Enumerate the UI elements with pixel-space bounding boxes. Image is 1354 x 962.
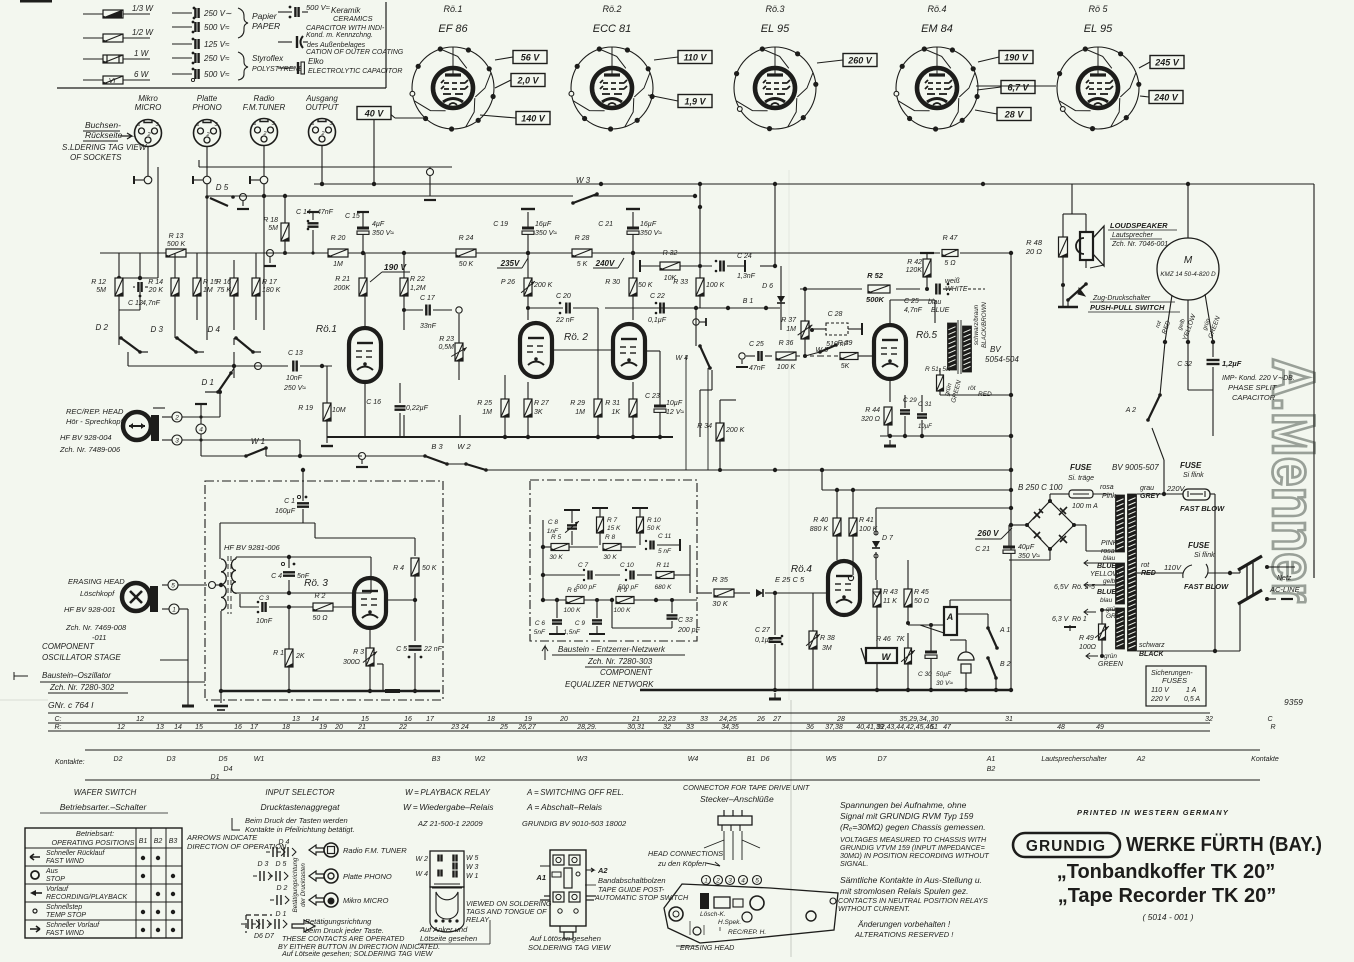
svg-text:R:: R: xyxy=(55,724,62,731)
svg-text:W2: W2 xyxy=(475,756,486,763)
diode D7 xyxy=(872,508,894,580)
capacitor C17 33nF xyxy=(402,295,462,330)
svg-text:R 49: R 49 xyxy=(1079,635,1094,642)
svg-text:Radio: Radio xyxy=(254,94,275,103)
label 9359 xyxy=(1284,697,1303,707)
label 235V xyxy=(497,258,528,268)
svg-text:15: 15 xyxy=(361,716,369,723)
resistor R37 1M xyxy=(781,296,812,358)
svg-text:Drucktastenaggregat: Drucktastenaggregat xyxy=(261,802,341,812)
resistor R16 75K xyxy=(216,260,238,330)
svg-text:D6 D7: D6 D7 xyxy=(254,933,275,940)
svg-text:22: 22 xyxy=(398,724,407,731)
svg-text:110V: 110V xyxy=(1164,563,1182,572)
svg-text:10µF: 10µF xyxy=(918,424,932,430)
label gruen GREEN motor xyxy=(1202,315,1222,339)
svg-text:C 27: C 27 xyxy=(755,627,771,634)
tube Ro4 EM84 xyxy=(791,561,860,615)
label rosa pink xyxy=(1100,484,1116,500)
svg-text:1K: 1K xyxy=(611,409,620,416)
svg-text:Rö. 2: Rö. 2 xyxy=(564,332,588,343)
wire Ro4 leads xyxy=(975,57,1001,114)
voltage box 6,7V xyxy=(1001,81,1035,94)
svg-text:100 m A: 100 m A xyxy=(1072,503,1098,510)
svg-text:2,0 V: 2,0 V xyxy=(516,76,539,86)
svg-text:schwarz: schwarz xyxy=(1139,642,1165,649)
saemtliche text xyxy=(838,875,988,913)
svg-text:CERAMICS: CERAMICS xyxy=(333,14,373,23)
svg-text:Schneller Rücklauf: Schneller Rücklauf xyxy=(46,850,105,857)
resistor R39 5K xyxy=(816,340,872,370)
voltage box 140V xyxy=(516,112,550,125)
voltage box 1,9V xyxy=(678,95,712,108)
voltage box 110V xyxy=(678,51,712,64)
capacitor C26 47nF xyxy=(904,283,952,314)
relay W diagram xyxy=(416,851,479,932)
svg-text:50 Ω: 50 Ω xyxy=(914,598,930,605)
svg-text:240V: 240V xyxy=(595,259,615,268)
svg-text:R 34: R 34 xyxy=(697,423,712,430)
svg-text:110 V: 110 V xyxy=(1151,687,1170,694)
svg-text:15 K: 15 K xyxy=(607,525,621,532)
label 65V xyxy=(1054,560,1115,591)
svg-text:680 K: 680 K xyxy=(655,584,673,591)
svg-text:ERASING HEAD: ERASING HEAD xyxy=(68,577,125,586)
ac plug xyxy=(1238,556,1301,604)
svg-text:Kontakte in Pfeilrichtung betä: Kontakte in Pfeilrichtung betätigt. xyxy=(245,825,355,834)
svg-text:5 K: 5 K xyxy=(577,261,588,268)
svg-text:11 K: 11 K xyxy=(883,598,897,605)
svg-text:34,35: 34,35 xyxy=(721,724,739,731)
wire ro4 grid xyxy=(828,592,830,594)
contact row C xyxy=(55,716,1274,723)
wire ro2 out xyxy=(645,351,660,380)
svg-text:5M: 5M xyxy=(268,225,278,232)
label B250C100 xyxy=(1018,483,1063,492)
svg-text:C 3: C 3 xyxy=(259,595,270,602)
svg-text:245 V: 245 V xyxy=(1154,58,1180,68)
capacitor C7 500pF xyxy=(541,562,620,591)
erase gnd xyxy=(160,640,194,706)
svg-text:FUSE: FUSE xyxy=(1070,463,1092,472)
wire Ro1 leads xyxy=(388,57,516,118)
svg-text:880 K: 880 K xyxy=(810,526,829,533)
svg-text:C 17: C 17 xyxy=(420,295,436,302)
svg-text:2: 2 xyxy=(146,132,150,138)
svg-text:4: 4 xyxy=(199,427,203,434)
svg-text:CONNECTOR FOR TAPE DRIVE UN: CONNECTOR FOR TAPE DRIVE UNIT xyxy=(683,783,810,792)
svg-text:48: 48 xyxy=(1057,724,1065,731)
connector wires xyxy=(704,831,760,860)
svg-text:D5: D5 xyxy=(219,756,228,763)
svg-text:„Tape Recorder TK 20”: „Tape Recorder TK 20” xyxy=(1058,885,1277,907)
transformer secondary pink xyxy=(1101,495,1125,555)
svg-text:33: 33 xyxy=(686,724,694,731)
svg-text:37,38: 37,38 xyxy=(825,724,843,731)
svg-text:B2: B2 xyxy=(987,766,996,773)
contact D4 xyxy=(266,839,296,857)
wire top bus A xyxy=(314,182,1072,186)
resistor R19 10M xyxy=(298,366,346,446)
svg-text:OF SOCKETS: OF SOCKETS xyxy=(70,153,122,162)
legend cap ceramic xyxy=(278,3,373,23)
svg-text:Vorlauf: Vorlauf xyxy=(46,886,69,893)
svg-text:R 51, 5K: R 51, 5K xyxy=(925,366,951,373)
svg-text:der Drucktasten: der Drucktasten xyxy=(300,863,307,907)
scan crease horizontal xyxy=(0,699,48,701)
wire x1011 vertical xyxy=(1009,253,1013,690)
svg-text:D 7: D 7 xyxy=(882,535,894,542)
svg-text:19: 19 xyxy=(524,716,532,723)
svg-text:2: 2 xyxy=(174,415,179,422)
voltage box 260V xyxy=(843,54,877,67)
svg-text:EL 95: EL 95 xyxy=(761,23,790,35)
svg-text:Platte PHONO: Platte PHONO xyxy=(343,872,392,881)
rec head pins xyxy=(162,412,300,445)
svg-text:500 pF: 500 pF xyxy=(576,584,597,591)
svg-text:30,31: 30,31 xyxy=(627,724,645,731)
svg-text:1,5nF: 1,5nF xyxy=(563,629,581,636)
resistor R20 1M xyxy=(328,235,348,268)
socket Platte xyxy=(192,94,221,147)
svg-text:PHASE SPLIT: PHASE SPLIT xyxy=(1228,383,1278,392)
resistor R48 20ohm xyxy=(1025,214,1072,307)
osc transformer xyxy=(219,556,236,693)
scan crease vertical xyxy=(789,170,791,957)
svg-text:KMZ 14 50-4-820 D: KMZ 14 50-4-820 D xyxy=(1160,271,1216,278)
label 240V xyxy=(593,258,624,268)
svg-text:7K: 7K xyxy=(896,636,905,643)
svg-text:W 1: W 1 xyxy=(251,437,265,446)
playback relay title xyxy=(403,788,494,828)
erase head pins xyxy=(162,580,221,640)
svg-text:Zch. Nr. 7280-303: Zch. Nr. 7280-303 xyxy=(587,657,653,666)
svg-text:50 K: 50 K xyxy=(638,282,653,289)
svg-text:1 W: 1 W xyxy=(134,49,150,58)
svg-text:1: 1 xyxy=(253,121,256,127)
svg-text:A: A xyxy=(946,612,954,622)
svg-text:OUTPUT: OUTPUT xyxy=(306,103,340,112)
resistor R12 5M xyxy=(91,278,123,296)
switch W1 xyxy=(201,437,302,458)
resistor R43 11K xyxy=(873,580,898,648)
switch W2 xyxy=(457,442,487,472)
capacitor C8 1nF xyxy=(547,510,580,545)
svg-text:C 31: C 31 xyxy=(918,401,932,408)
tube Ro2b xyxy=(564,324,645,378)
resistor R47 5ohm xyxy=(942,235,958,267)
voltage box 190V xyxy=(999,51,1033,64)
resistor R8 30K xyxy=(603,534,636,561)
svg-text:GRUNDIG: GRUNDIG xyxy=(1026,838,1106,855)
svg-text:Platte: Platte xyxy=(197,94,218,103)
svg-text:FAST BLOW: FAST BLOW xyxy=(1184,582,1229,591)
svg-text:C 5: C 5 xyxy=(396,646,407,653)
legend cap elko xyxy=(278,57,402,75)
svg-text:51: 51 xyxy=(930,724,938,731)
wire bridge connections xyxy=(1009,494,1116,560)
svg-text:16: 16 xyxy=(404,716,412,723)
svg-text:weiß: weiß xyxy=(945,278,960,285)
svg-text:18: 18 xyxy=(282,724,290,731)
svg-text:W 1: W 1 xyxy=(466,873,479,880)
svg-text:FUSE: FUSE xyxy=(1188,541,1210,550)
resistor R1 2K xyxy=(273,607,305,693)
motor M xyxy=(1157,238,1219,300)
wire bus A right xyxy=(1072,182,1314,186)
svg-text:R 47: R 47 xyxy=(943,235,959,242)
legend resistor 1W xyxy=(83,49,150,63)
svg-text:50 K: 50 K xyxy=(647,525,661,532)
svg-text:23 24: 23 24 xyxy=(450,724,469,731)
capacitor C5 22nF xyxy=(396,646,443,693)
svg-text:Bandabschaltbolzen: Bandabschaltbolzen xyxy=(598,876,666,885)
wire eq out xyxy=(697,592,712,594)
svg-text:B 250 C 100: B 250 C 100 xyxy=(1018,483,1063,492)
svg-text:HEAD CONNECTIONS: HEAD CONNECTIONS xyxy=(648,849,723,858)
resistor R25 1M xyxy=(477,375,509,437)
switch W3 xyxy=(571,176,599,205)
svg-text:rosa: rosa xyxy=(1100,484,1114,491)
svg-text:75 K: 75 K xyxy=(217,287,232,294)
resistor R6 100K xyxy=(541,587,612,614)
switch D1 xyxy=(202,368,234,394)
socket note xyxy=(62,120,148,162)
svg-text:R 41: R 41 xyxy=(859,517,874,524)
svg-text:D 5: D 5 xyxy=(216,183,229,192)
svg-text:24,25: 24,25 xyxy=(718,716,737,723)
wire M feed xyxy=(1187,184,1189,238)
svg-text:W3: W3 xyxy=(577,756,588,763)
tube Ro1 xyxy=(316,324,381,382)
label weiss WHITE xyxy=(945,278,985,293)
aenderungen text xyxy=(854,920,954,939)
svg-text:14: 14 xyxy=(311,716,319,723)
socket Mikro xyxy=(135,94,162,147)
contact D1 xyxy=(241,911,315,940)
capacitor C9 1.5nF xyxy=(563,598,605,636)
svg-text:125 V≈: 125 V≈ xyxy=(204,40,230,49)
svg-text:R 45: R 45 xyxy=(914,589,929,596)
wire y470 long xyxy=(486,468,1013,472)
svg-text:GRUNDIG BV 9010-503 18002: GRUNDIG BV 9010-503 18002 xyxy=(522,819,627,828)
capacitor C3 10nF xyxy=(256,595,273,625)
svg-text:49: 49 xyxy=(1096,724,1104,731)
svg-text:0,22µF: 0,22µF xyxy=(406,405,429,412)
abschalt relay title xyxy=(522,788,627,828)
svg-text:HF BV 9281-006: HF BV 9281-006 xyxy=(224,543,281,552)
svg-text:Rö.4: Rö.4 xyxy=(791,564,813,575)
svg-text:5nF: 5nF xyxy=(534,629,546,636)
input selector title xyxy=(261,788,341,812)
connector icon xyxy=(718,810,752,831)
svg-text:(Rₑ=30MΩ) gegen Chassis gemess: (Rₑ=30MΩ) gegen Chassis gemessen. xyxy=(840,822,986,832)
svg-text:RECORDING/PLAYBACK: RECORDING/PLAYBACK xyxy=(46,894,127,901)
spannungen text xyxy=(840,800,986,832)
svg-text:mit stromlosen Relais Spule: mit stromlosen Relais Spulen gez. xyxy=(840,886,969,896)
voltage box 2,0V xyxy=(511,74,545,87)
svg-text:W = Wiedergabe–Relais: W = Wiedergabe–Relais xyxy=(403,802,494,812)
svg-text:D 1: D 1 xyxy=(202,378,214,387)
svg-text:Löschkopf: Löschkopf xyxy=(80,589,115,598)
label 63V xyxy=(1052,609,1096,631)
resistor R2 50 xyxy=(312,593,333,622)
head connections label xyxy=(648,849,723,868)
svg-text:47nF: 47nF xyxy=(317,209,334,216)
svg-text:R 43: R 43 xyxy=(883,589,898,596)
wire Ro3 leads xyxy=(817,60,843,63)
erase head labels xyxy=(64,577,127,642)
svg-text:28,29.: 28,29. xyxy=(576,724,597,731)
table header xyxy=(52,829,178,847)
svg-text:10nF: 10nF xyxy=(286,375,303,382)
wire x775 top xyxy=(760,184,777,268)
capacitor C19 16uF xyxy=(493,209,557,255)
tape recorder xyxy=(1058,885,1277,907)
svg-text:DIRECTION OF OPERATION: DIRECTION OF OPERATION xyxy=(187,842,287,851)
svg-text:50 Ω: 50 Ω xyxy=(312,615,328,622)
svg-text:6 W: 6 W xyxy=(134,70,150,79)
svg-text:Rö.3: Rö.3 xyxy=(765,4,784,14)
svg-text:120K: 120K xyxy=(906,267,923,274)
svg-text:500 V≈: 500 V≈ xyxy=(306,3,330,12)
label BV9005-507 xyxy=(1112,463,1159,472)
svg-text:R 48: R 48 xyxy=(1026,238,1043,247)
resistor R21 200K xyxy=(333,276,367,296)
svg-text:R 52: R 52 xyxy=(867,271,884,280)
wire input join xyxy=(128,352,236,378)
svg-text:RELAY: RELAY xyxy=(466,915,490,924)
svg-text:40 V: 40 V xyxy=(364,109,385,119)
tube top view Ro4 EM84 xyxy=(894,4,980,132)
svg-text:5 nF: 5 nF xyxy=(658,548,672,555)
watermark A.Menner xyxy=(1260,358,1327,603)
svg-text:ELECTROLYTIC CAPACITOR: ELECTROLYTIC CAPACITOR xyxy=(308,68,402,75)
svg-text:1M: 1M xyxy=(575,409,585,416)
svg-text:R 30: R 30 xyxy=(605,279,620,286)
svg-text:12 V≈: 12 V≈ xyxy=(666,409,684,416)
svg-text:Mikro MICRO: Mikro MICRO xyxy=(343,896,389,905)
svg-text:TEMP STOP: TEMP STOP xyxy=(46,912,86,919)
tube top view Ro5 EL95 xyxy=(1057,4,1141,131)
capacitor C11 5nF xyxy=(645,533,680,555)
wire y470 mid xyxy=(447,463,466,465)
svg-text:500K: 500K xyxy=(866,295,885,304)
svg-text:2: 2 xyxy=(262,131,266,137)
connector pins xyxy=(702,876,762,885)
resistor R49 100ohm xyxy=(1079,608,1115,656)
svg-text:200 pF: 200 pF xyxy=(677,627,701,634)
resistor R41 100K xyxy=(849,490,878,560)
svg-text:5054-504: 5054-504 xyxy=(985,355,1019,364)
svg-text:1: 1 xyxy=(704,878,708,885)
svg-text:R 44: R 44 xyxy=(865,407,880,414)
svg-text:9359: 9359 xyxy=(1284,697,1303,707)
wire ro4 mid xyxy=(853,560,908,575)
svg-text:D 3: D 3 xyxy=(258,861,269,868)
printed in germany xyxy=(1077,808,1229,817)
svg-text:56 V: 56 V xyxy=(521,53,541,63)
svg-text:PUSH-PULL SWITCH: PUSH-PULL SWITCH xyxy=(1090,303,1165,312)
equalizer label xyxy=(542,645,685,689)
svg-text:A 2: A 2 xyxy=(1125,407,1136,414)
operating positions table xyxy=(25,828,182,938)
svg-text:110 V: 110 V xyxy=(684,53,708,63)
svg-text:100 K: 100 K xyxy=(614,607,632,614)
rectifier bridge xyxy=(1025,499,1076,551)
wire eq left rail xyxy=(542,520,544,600)
svg-text:COMPONENT: COMPONENT xyxy=(42,642,95,651)
svg-text:R 38: R 38 xyxy=(820,635,835,642)
svg-text:R 31: R 31 xyxy=(605,400,620,407)
svg-text:YELLOW: YELLOW xyxy=(1090,571,1121,578)
resistor R4 50K xyxy=(393,558,437,602)
svg-text:Baustein–Oszillator: Baustein–Oszillator xyxy=(42,671,111,680)
svg-text:Zch. Nr. 7489-006: Zch. Nr. 7489-006 xyxy=(59,445,121,454)
legend cap 500V=2 xyxy=(172,68,230,82)
svg-text:Si. träge: Si. träge xyxy=(1068,475,1094,482)
svg-text:OPERATING POSITIONS: OPERATING POSITIONS xyxy=(52,838,135,847)
label BV 5054-504 xyxy=(985,345,1019,364)
svg-text:Rö.1: Rö.1 xyxy=(443,4,462,14)
pushpull switch xyxy=(1058,282,1180,312)
svg-text:100 K: 100 K xyxy=(706,282,725,289)
svg-text:5: 5 xyxy=(755,878,759,885)
svg-text:R 32: R 32 xyxy=(663,250,678,257)
svg-text:350 V≈: 350 V≈ xyxy=(640,230,662,237)
svg-text:GNr. c 764 I: GNr. c 764 I xyxy=(48,700,94,710)
svg-text:50 K: 50 K xyxy=(459,261,474,268)
svg-text:32: 32 xyxy=(1205,716,1213,723)
svg-text:5K: 5K xyxy=(841,363,850,370)
label rot RED motor xyxy=(1155,320,1172,336)
resistor R22 1.2M xyxy=(400,253,426,330)
capacitor C20 22nF xyxy=(526,293,598,324)
svg-text:1: 1 xyxy=(172,607,176,614)
svg-text:A2: A2 xyxy=(1136,756,1146,763)
svg-text:33nF: 33nF xyxy=(420,323,437,330)
resistor R13 500K xyxy=(166,233,186,257)
capacitor C30 50uF xyxy=(918,623,953,692)
wire w4 down xyxy=(700,370,712,437)
svg-text:M: M xyxy=(1184,255,1193,266)
output transformer primary xyxy=(948,320,972,374)
svg-text:6,5V: 6,5V xyxy=(1054,584,1070,591)
deck labels xyxy=(676,911,766,952)
svg-text:28 V: 28 V xyxy=(1004,110,1025,120)
wire trafo grey to fuse xyxy=(1137,428,1186,496)
svg-text:10M: 10M xyxy=(332,407,346,414)
svg-text:R 19: R 19 xyxy=(298,405,313,412)
label schwarz braun xyxy=(973,302,988,348)
svg-text:20 K: 20 K xyxy=(148,287,164,294)
svg-text:W4: W4 xyxy=(688,756,699,763)
svg-text:CAPACITOR WITH INDI-: CAPACITOR WITH INDI- xyxy=(306,25,385,32)
svg-text:A1: A1 xyxy=(535,873,546,882)
svg-text:20: 20 xyxy=(559,716,568,723)
svg-text:GRN: GRN xyxy=(1106,613,1121,620)
svg-text:22 nF: 22 nF xyxy=(555,317,575,324)
svg-text:50 K: 50 K xyxy=(422,565,437,572)
resistor R35 30K xyxy=(712,575,750,608)
viewed on soldering xyxy=(466,899,552,924)
svg-text:W 3: W 3 xyxy=(466,864,479,871)
svg-text:C 9: C 9 xyxy=(575,620,586,627)
svg-text:Lösch-K.: Lösch-K. xyxy=(700,911,726,918)
svg-text:26: 26 xyxy=(756,716,765,723)
svg-text:H.Spek.: H.Spek. xyxy=(718,919,741,926)
capacitor C32 1.2uF xyxy=(1177,342,1242,436)
